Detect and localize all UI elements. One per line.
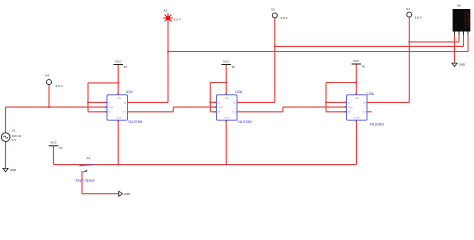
svg-text:1~Q: 1~Q — [232, 112, 236, 114]
svg-text:1PR: 1PR — [225, 98, 229, 100]
svg-text:1J: 1J — [108, 102, 110, 104]
svg-text:2.5 V: 2.5 V — [280, 16, 288, 20]
svg-text:1CLK: 1CLK — [348, 107, 354, 109]
svg-text:VCC: VCC — [223, 59, 230, 63]
svg-text:2.5 V: 2.5 V — [56, 84, 64, 88]
svg-text:X4: X4 — [45, 74, 49, 78]
svg-text:GND: GND — [124, 192, 130, 196]
svg-text:1CLR: 1CLR — [116, 118, 122, 120]
svg-text:74LS76N: 74LS76N — [128, 120, 143, 124]
svg-text:X2: X2 — [271, 7, 275, 11]
svg-text:5 V: 5 V — [12, 138, 17, 142]
svg-text:5V: 5V — [59, 146, 62, 150]
svg-text:X3: X3 — [163, 9, 167, 13]
svg-text:1CLK: 1CLK — [108, 107, 114, 109]
svg-text:1PR: 1PR — [117, 98, 121, 100]
svg-text:1Q: 1Q — [363, 102, 366, 104]
svg-text:5V: 5V — [124, 65, 127, 69]
svg-text:V1: V1 — [12, 128, 16, 132]
svg-text:U6: U6 — [457, 4, 461, 8]
svg-text:VCC: VCC — [115, 59, 122, 63]
svg-text:2.5 V: 2.5 V — [415, 15, 423, 19]
svg-text:VCC: VCC — [50, 141, 57, 145]
svg-text:74LS76N: 74LS76N — [369, 122, 384, 126]
svg-text:1J: 1J — [218, 102, 220, 104]
svg-text:U2A: U2A — [235, 90, 243, 94]
svg-text:74LS76N: 74LS76N — [237, 120, 252, 124]
svg-text:1J: 1J — [348, 102, 350, 104]
svg-text:1~Q: 1~Q — [122, 112, 126, 114]
svg-text:Key = Space: Key = Space — [76, 179, 95, 183]
svg-text:U1A: U1A — [126, 90, 134, 94]
svg-text:5V: 5V — [232, 65, 235, 69]
svg-text:S1: S1 — [87, 156, 91, 160]
svg-text:1~Q: 1~Q — [362, 112, 366, 114]
svg-text:1CLK: 1CLK — [218, 107, 224, 109]
svg-text:1CLR: 1CLR — [224, 118, 230, 120]
svg-text:1PR: 1PR — [355, 98, 359, 100]
svg-text:1Q: 1Q — [124, 102, 127, 104]
svg-text:GND: GND — [459, 63, 465, 67]
svg-text:5V: 5V — [362, 64, 365, 68]
svg-text:GND: GND — [10, 168, 16, 172]
svg-text:X1: X1 — [406, 7, 410, 11]
svg-text:VCC: VCC — [353, 59, 360, 63]
svg-text:1CLR: 1CLR — [354, 118, 360, 120]
svg-text:2.5 V: 2.5 V — [174, 17, 182, 21]
svg-text:U3A: U3A — [367, 92, 375, 96]
svg-text:1Q: 1Q — [233, 102, 236, 104]
